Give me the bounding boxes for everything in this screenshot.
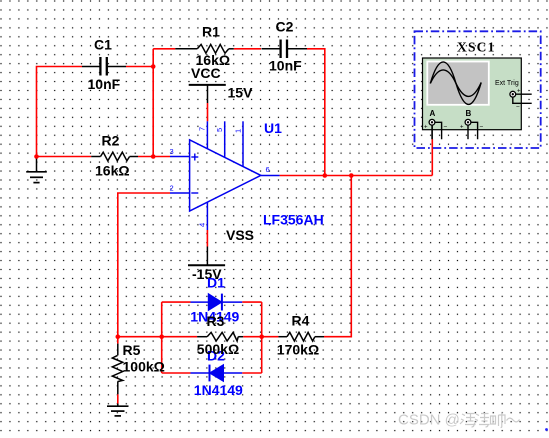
svg-text:+: + [424, 125, 428, 131]
svg-text:15V: 15V [228, 85, 254, 101]
ground (bottom) [107, 404, 129, 416]
wire: R2 to pin3 [138, 156, 170, 158]
capacitor C1 [82, 37, 126, 93]
svg-text:Ext Trig: Ext Trig [495, 80, 519, 87]
watermark [398, 412, 548, 431]
svg-text:170kΩ: 170kΩ [277, 342, 319, 358]
wire: C2 right down to output [307, 49, 325, 176]
wire: vertical junction column x=153 [152, 49, 154, 157]
wire: VCC red segment [207, 103, 209, 121]
svg-text:16kΩ: 16kΩ [95, 163, 130, 179]
wire: C1 right to junction [126, 66, 154, 68]
capacitor C2 [262, 19, 308, 74]
svg-text:XSC1: XSC1 [457, 39, 496, 54]
diode D2 [191, 348, 244, 399]
svg-text:U1: U1 [264, 120, 282, 136]
svg-text:−: − [480, 124, 484, 131]
oscilloscope XSC1 [415, 31, 541, 148]
wire: scope A drop [431, 139, 433, 175]
svg-text:5: 5 [215, 128, 224, 132]
svg-text:−: − [444, 124, 448, 131]
svg-text:10nF: 10nF [269, 58, 302, 74]
svg-text:1: 1 [233, 129, 242, 133]
svg-text:LF356AH: LF356AH [263, 212, 324, 228]
svg-text:6: 6 [266, 165, 270, 174]
wire: left node to R2 [37, 156, 92, 158]
svg-text:10nF: 10nF [88, 76, 121, 92]
svg-text:2: 2 [170, 184, 174, 193]
VSS power symbol [188, 227, 254, 282]
wire: diode loop right side [261, 302, 263, 373]
svg-text:VSS: VSS [226, 227, 254, 243]
wire: R1 to C2 [234, 48, 261, 50]
wire: bottom net left segment [118, 336, 197, 338]
svg-text:4: 4 [198, 223, 207, 227]
svg-text:3: 3 [170, 147, 174, 156]
resistor R5 [112, 342, 165, 394]
svg-text:C2: C2 [276, 19, 294, 35]
svg-text:A: A [430, 109, 436, 118]
wire: C1 left node L [37, 67, 83, 157]
node junction dots [34, 64, 353, 339]
resistor R4 [277, 313, 324, 358]
wire: D1 branch [162, 301, 262, 303]
svg-text:R4: R4 [292, 313, 310, 329]
svg-text:R2: R2 [102, 133, 120, 149]
svg-text:+: + [517, 89, 521, 95]
svg-text:−: − [516, 104, 520, 111]
svg-text:C1: C1 [94, 37, 112, 53]
svg-text:B: B [466, 109, 472, 118]
wire: VSS red segment [206, 230, 208, 247]
resistor R2 [91, 133, 138, 179]
svg-text:+: + [460, 125, 464, 131]
op-amp U1 [170, 120, 324, 230]
svg-text:D1: D1 [207, 275, 225, 291]
svg-text:500kΩ: 500kΩ [197, 341, 239, 357]
wire: pin2 down to bottom net [118, 193, 170, 337]
resistor R1 [175, 24, 234, 69]
wire: output down to R4 [324, 176, 351, 337]
svg-text:R3: R3 [207, 313, 225, 329]
svg-text:100kΩ: 100kΩ [123, 359, 165, 375]
wire: D2 branch [162, 372, 262, 374]
resistor R3 [197, 313, 243, 357]
svg-text:R1: R1 [202, 24, 220, 40]
wire: output run [280, 175, 433, 177]
svg-text:7: 7 [198, 127, 207, 131]
VCC power symbol [189, 65, 253, 103]
diode D1 [190, 275, 242, 325]
svg-text:1N4149: 1N4149 [194, 382, 243, 398]
wire: top run to R1 [153, 48, 175, 50]
ground (left) [26, 157, 47, 183]
wire: R5 stubs [117, 337, 119, 404]
svg-text:VCC: VCC [191, 65, 221, 81]
svg-text:R5: R5 [123, 342, 141, 358]
wire: R3 to R4 segment [243, 336, 278, 338]
svg-text:CSDN @: CSDN @ [398, 412, 460, 429]
wire: diode loop left side [161, 302, 163, 373]
